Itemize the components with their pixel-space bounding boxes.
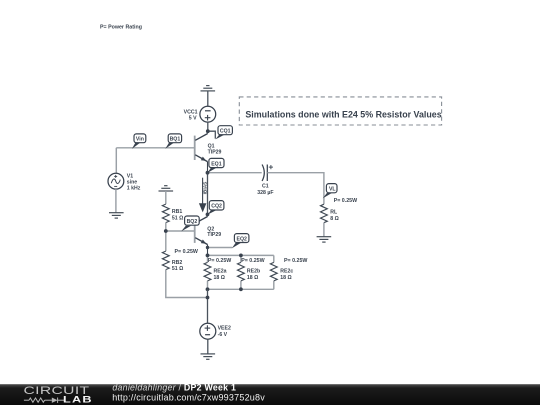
junction RE2a top (206, 254, 210, 258)
svg-text:18 Ω: 18 Ω (280, 275, 291, 281)
junction CQ1 (206, 129, 210, 133)
resistor RE2b (238, 262, 245, 281)
svg-text:328 µF: 328 µF (257, 190, 273, 196)
flag CQ2 (208, 201, 224, 215)
resistor RB2 (162, 251, 169, 270)
voltage source V1 (sine) (108, 173, 124, 189)
svg-text:EQ1: EQ1 (211, 161, 221, 167)
wire RE bottom rail (208, 288, 274, 290)
svg-text:51 Ω: 51 Ω (172, 215, 183, 221)
svg-text:http://circuitlab.com/c7xw9937: http://circuitlab.com/c7xw993752u8v (112, 392, 265, 402)
wire C1 to RL (267, 173, 324, 205)
junction RE2b bottom (239, 287, 243, 291)
ground (top, above VCC1) (201, 86, 216, 91)
svg-text:18 Ω: 18 Ω (247, 275, 258, 281)
wire V1 to ground (115, 189, 117, 213)
svg-text:sine: sine (127, 180, 137, 186)
junction RE2b top (239, 254, 243, 258)
svg-text:Simulations done with E24 5% R: Simulations done with E24 5% Resistor Va… (245, 110, 441, 120)
wire RE2b top stub (240, 255, 242, 262)
svg-text:51 Ω: 51 Ω (172, 266, 183, 272)
svg-text:C1: C1 (262, 184, 269, 190)
logo diode triangle (52, 398, 58, 403)
junction RE2a bottom (206, 287, 210, 291)
voltage source VEE2 (200, 323, 216, 339)
wire EQ1 to C1 (208, 172, 262, 174)
svg-text:RE2b: RE2b (247, 269, 260, 275)
wire down to VEE2 (207, 289, 209, 323)
ground VEE2 (201, 354, 216, 359)
wire EQ2 flag stub (208, 247, 233, 249)
svg-text:P= 0.25W: P= 0.25W (175, 249, 198, 255)
svg-text:TIP29: TIP29 (208, 149, 222, 155)
svg-text:BQ2: BQ2 (187, 219, 198, 225)
transistor Q2 TIP29 (195, 214, 208, 255)
svg-text:RE2c: RE2c (280, 269, 293, 275)
resistor RE2c (270, 262, 277, 281)
flag EQ2 (232, 234, 249, 249)
junction EQ2 (206, 246, 209, 249)
svg-text:P= 0.25W: P= 0.25W (208, 258, 231, 264)
flag VL (323, 184, 337, 199)
transistor Q1 TIP29 (195, 131, 208, 173)
svg-text:18 Ω: 18 Ω (214, 275, 225, 281)
svg-text:CQ1: CQ1 (220, 129, 231, 135)
svg-text:P= 0.25W: P= 0.25W (284, 258, 307, 264)
svg-text:5 V: 5 V (189, 116, 197, 122)
flag CQ1 (215, 126, 232, 140)
wire RB2 to rail (166, 270, 208, 298)
wire RE2b bottom stub (240, 281, 242, 289)
svg-text:P= Power Rating: P= Power Rating (100, 25, 142, 31)
svg-text:-6 V: -6 V (218, 332, 228, 338)
wire RL to ground (323, 223, 325, 237)
logo wire-resistor-diode (24, 398, 64, 403)
svg-text:IBIAS: IBIAS (202, 181, 208, 195)
svg-text:BQ1: BQ1 (170, 137, 181, 143)
svg-text:RB1: RB1 (172, 209, 182, 215)
wire top ground to VCC1 (207, 91, 209, 107)
junction VEE rail (206, 296, 210, 300)
svg-text:TIP29: TIP29 (207, 232, 221, 238)
svg-text:VL: VL (329, 187, 336, 193)
svg-text:RL: RL (330, 210, 338, 216)
svg-text:LAB: LAB (63, 395, 93, 405)
wire CQ1 dogleg (208, 131, 216, 138)
wire RE2c top stub (273, 255, 275, 262)
svg-text:RE2a: RE2a (214, 269, 227, 275)
footer bar (0, 384, 540, 405)
svg-text:danieldahlinger / DP2 Week 1: danieldahlinger / DP2 Week 1 (112, 383, 236, 393)
svg-text:EQ2: EQ2 (237, 236, 247, 242)
wire Vin/BQ1 to Q1 base (116, 147, 194, 149)
current annotation IBIAS arrow (199, 178, 209, 213)
wire VCC1 to node CQ1 (207, 122, 209, 131)
wire base Q2 (166, 230, 195, 232)
wire EQ1 to CQ2 (207, 173, 209, 215)
junction RB1/base (164, 229, 168, 233)
flag Vin (132, 134, 146, 149)
wire EQ2 rail (208, 254, 274, 256)
resistor RE2a (204, 262, 211, 281)
svg-text:8 Ω: 8 Ω (330, 216, 339, 222)
svg-text:P= 0.25W: P= 0.25W (241, 258, 264, 264)
svg-text:V1: V1 (127, 173, 133, 179)
svg-text:VEE2: VEE2 (218, 326, 231, 332)
wire VEE2 to ground (207, 339, 209, 354)
wire RE2a top stub (207, 255, 209, 262)
svg-text:Vin: Vin (136, 137, 144, 143)
resistor RL (321, 204, 328, 223)
wire RB1 to RB2 (165, 223, 167, 252)
junction EQ1 (206, 171, 210, 175)
wire down to V1 (115, 148, 117, 174)
flag BQ2 (181, 216, 199, 231)
wire RE2c bottom stub (273, 281, 275, 289)
svg-text:1 kHz: 1 kHz (127, 186, 141, 192)
svg-text:P= 0.25W: P= 0.25W (334, 198, 357, 204)
ground RL (317, 237, 332, 242)
flag BQ1 (165, 134, 181, 149)
resistor RB1 (162, 204, 169, 223)
junction CQ2 (206, 213, 210, 217)
flag EQ1 (208, 158, 224, 172)
annotation dashed box (239, 97, 441, 125)
ground V1 (109, 213, 124, 218)
svg-text:CQ2: CQ2 (211, 204, 222, 210)
ground above RB1 (159, 186, 174, 191)
voltage source VCC1 (200, 106, 216, 122)
capacitor C1 (262, 165, 273, 182)
wire ground to RB1 (165, 191, 167, 204)
wire RE2a bottom stub (207, 281, 209, 289)
